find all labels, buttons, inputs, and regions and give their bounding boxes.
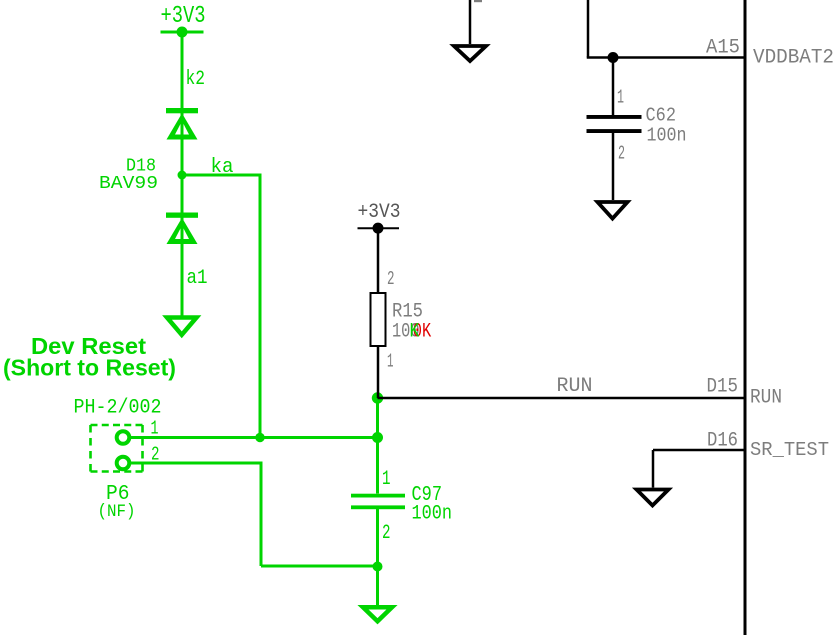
ground (black, under C62) bbox=[598, 202, 628, 219]
wire ka vertical down bbox=[259, 174, 262, 439]
connector P6 pin 1 circle bbox=[117, 431, 130, 444]
svg-text:100n: 100n bbox=[412, 503, 453, 526]
svg-text:SR_TEST: SR_TEST bbox=[750, 439, 829, 461]
svg-text:D15: D15 bbox=[707, 376, 739, 399]
svg-text:1: 1 bbox=[382, 468, 391, 491]
wire R15 to RUN node bbox=[377, 346, 380, 398]
connector P6 pin 2 circle bbox=[117, 457, 130, 470]
ground (green, bottom) bbox=[363, 607, 392, 621]
wire ka horizontal bbox=[182, 174, 260, 177]
wire RUN node down to C97 bbox=[376, 398, 379, 494]
svg-text:1: 1 bbox=[617, 87, 624, 109]
svg-text:2: 2 bbox=[382, 522, 391, 545]
svg-text:A15: A15 bbox=[706, 37, 740, 60]
wire VDDBAT2 vertical from top bbox=[587, 0, 590, 58]
capacitor C62 plates bbox=[587, 115, 642, 133]
resistor R15 body bbox=[371, 293, 386, 346]
node RUN junction (green dot) bbox=[372, 392, 383, 403]
svg-text:RUN: RUN bbox=[557, 375, 593, 398]
wire P6 pin1 to RUN node bbox=[131, 436, 378, 439]
capacitor C97 plates bbox=[351, 494, 405, 509]
svg-text:PH-2/002: PH-2/002 bbox=[74, 397, 162, 420]
svg-text:1: 1 bbox=[387, 351, 394, 373]
connector P6 body (dashed) bbox=[91, 425, 143, 472]
wire +3V3 through D18 to ground bbox=[181, 32, 184, 318]
wire D16 down bbox=[652, 450, 655, 488]
svg-text:BAV99: BAV99 bbox=[99, 173, 158, 194]
svg-text:RUN: RUN bbox=[750, 387, 782, 410]
wire +3V3 to R15 bbox=[377, 228, 380, 293]
wire / pin A15 horizontal bbox=[587, 56, 745, 59]
diode D18 element A (top) bbox=[166, 108, 198, 140]
svg-text:VDDBAT2: VDDBAT2 bbox=[753, 47, 834, 70]
wire pin2 down bbox=[260, 462, 263, 567]
svg-text:+3V3: +3V3 bbox=[161, 3, 206, 30]
pin number 2 sliver (top edge) bbox=[474, 0, 482, 2]
wire C97 pin2 down bbox=[376, 509, 379, 608]
svg-text:K: K bbox=[410, 321, 420, 344]
ground (black, top-left) bbox=[454, 46, 486, 61]
ground (black, under D16) bbox=[637, 490, 669, 506]
svg-text:k2: k2 bbox=[186, 68, 206, 91]
svg-text:(Short to Reset): (Short to Reset) bbox=[3, 355, 176, 381]
svg-text:100n: 100n bbox=[647, 125, 687, 147]
wire P6 pin2 right bbox=[131, 462, 261, 465]
wire pin2 bottom to ground node bbox=[261, 565, 378, 568]
power symbol +3V3 (black) bbox=[358, 201, 401, 234]
node ka junction bbox=[178, 171, 187, 180]
node junction C97/pin2 wire bbox=[373, 562, 383, 572]
svg-text:(NF): (NF) bbox=[98, 502, 136, 522]
svg-text:C62: C62 bbox=[646, 105, 677, 127]
power symbol +3V3 (green) bbox=[161, 3, 206, 38]
wire C62 to ground bbox=[612, 133, 615, 200]
node junction C62 tap bbox=[608, 52, 619, 63]
diode D18 element B (bottom) bbox=[166, 213, 198, 245]
wire RUN horizontal (black) bbox=[378, 397, 746, 400]
svg-text:a1: a1 bbox=[187, 267, 208, 290]
svg-text:2: 2 bbox=[387, 268, 395, 290]
wire junction to C62 bbox=[612, 58, 615, 116]
ground (green, under D18) bbox=[167, 318, 197, 335]
node junction ka/pin1 bbox=[255, 433, 264, 442]
IC border (right) bbox=[744, 0, 747, 635]
svg-text:2: 2 bbox=[618, 143, 625, 165]
svg-text:+3V3: +3V3 bbox=[358, 201, 401, 224]
wire to top-left black ground bbox=[469, 0, 472, 44]
pin D16 / wire to ground bbox=[653, 449, 745, 452]
node junction pin1/C97 bbox=[372, 432, 383, 443]
